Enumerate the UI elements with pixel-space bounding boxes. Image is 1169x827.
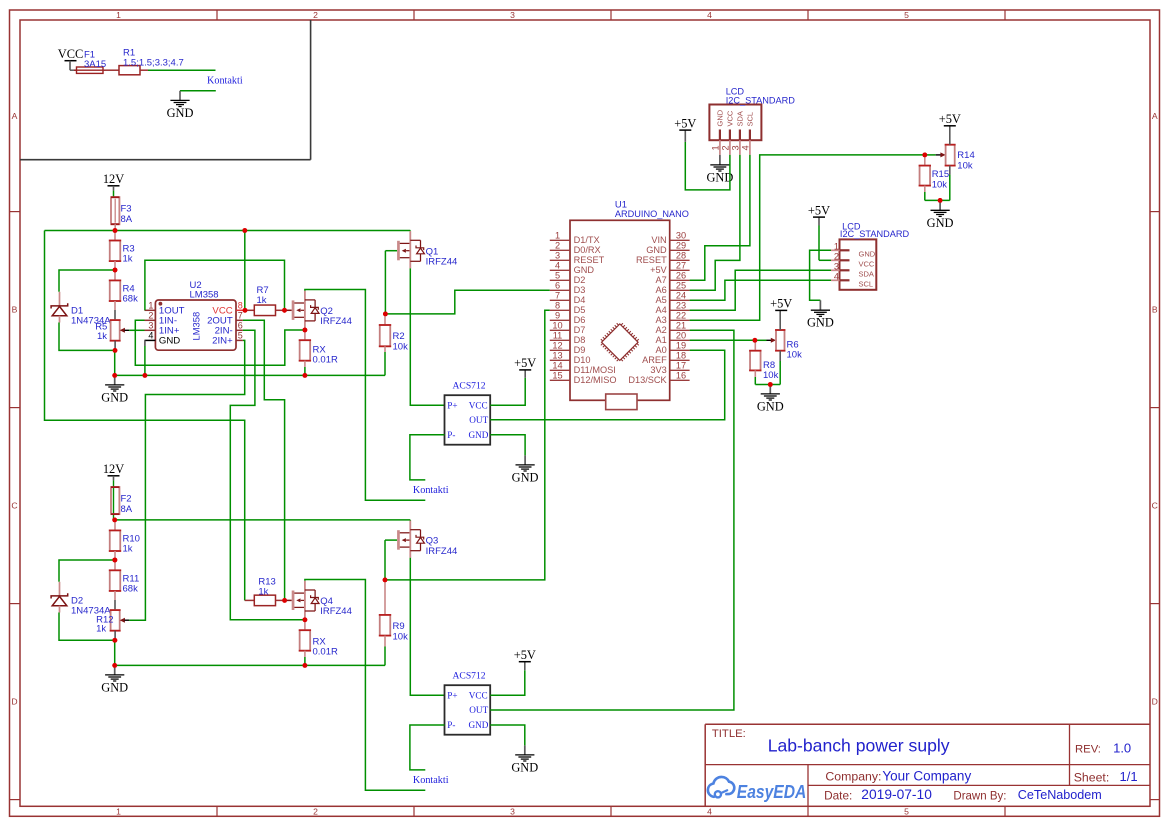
svg-text:+5V: +5V	[674, 116, 696, 130]
svg-text:8: 8	[555, 301, 560, 311]
svg-text:3: 3	[510, 806, 515, 816]
svg-text:D11/MOSI: D11/MOSI	[574, 365, 616, 375]
title block	[705, 724, 1150, 806]
svg-text:VCC: VCC	[58, 47, 83, 61]
svg-text:10k: 10k	[393, 632, 409, 643]
wire Q4 source to RX2	[304, 618, 306, 620]
svg-text:VCC: VCC	[469, 690, 488, 700]
svg-text:1/1: 1/1	[1120, 769, 1138, 784]
ground R8-R6	[757, 394, 784, 414]
svg-text:I2C_STANDARD: I2C_STANDARD	[840, 229, 910, 239]
resistor R3	[109, 231, 135, 265]
svg-text:12V: 12V	[103, 462, 124, 476]
node RX2 bottom on GND rail	[303, 663, 308, 668]
svg-text:ACS712: ACS712	[453, 380, 486, 391]
svg-text:10: 10	[552, 321, 562, 331]
fuse F3	[111, 197, 133, 225]
wire R1 to Kontakti	[140, 69, 216, 71]
svg-text:3: 3	[148, 321, 153, 331]
op-amp U2 LM358	[145, 280, 246, 350]
resistor R9	[379, 580, 408, 666]
svg-text:D: D	[11, 697, 17, 707]
svg-text:LM358: LM358	[190, 289, 219, 300]
svg-text:GND: GND	[468, 720, 488, 730]
wire Q3 gate node to D5	[385, 310, 550, 580]
resistor R10	[109, 520, 140, 555]
node Q4 source RX2 top junction	[303, 617, 308, 622]
svg-text:GND: GND	[159, 336, 180, 347]
svg-text:IRFZ44: IRFZ44	[320, 316, 352, 327]
wire 12V rail channel 1	[45, 230, 411, 232]
svg-text:19: 19	[676, 341, 686, 351]
svg-text:17: 17	[676, 361, 686, 371]
shunt resistor RX1	[299, 330, 338, 375]
wire A1 to R6 wiper	[690, 339, 755, 341]
svg-text:11: 11	[553, 331, 563, 341]
junction dots overlay	[112, 153, 942, 668]
svg-text:3: 3	[730, 145, 740, 150]
svg-text:F2: F2	[121, 494, 132, 505]
ground ACS2	[511, 755, 538, 775]
transistor Q2 IRFZ44	[292, 291, 352, 328]
svg-text:D2: D2	[574, 275, 586, 285]
svg-text:3: 3	[510, 10, 515, 20]
svg-text:2IN+: 2IN+	[212, 336, 233, 347]
svg-text:10k: 10k	[787, 350, 803, 361]
svg-text:8: 8	[238, 301, 243, 311]
wire junction down to GND rail channel 2	[114, 640, 116, 665]
svg-text:6: 6	[238, 321, 243, 331]
microcontroller U1 ARDUINO_NANO	[550, 200, 690, 401]
svg-text:REV:: REV:	[1075, 744, 1101, 756]
transistor Q3 drain from rail	[409, 519, 411, 522]
potentiometer R12	[96, 610, 129, 640]
node GND rail channel 2 left	[112, 663, 117, 668]
fuse F1	[74, 50, 106, 74]
svg-text:7: 7	[555, 291, 560, 301]
svg-text:10k: 10k	[393, 342, 409, 353]
power flag +5V ACS1	[514, 356, 536, 370]
wire U2 1OUT loop to Q2 gate node	[145, 260, 285, 310]
power flag 12V channel 1	[103, 172, 124, 186]
resistor R1	[119, 48, 184, 75]
svg-text:VIN: VIN	[651, 235, 666, 245]
svg-text:14: 14	[552, 361, 562, 371]
wire LCD1 pin1 to ground	[719, 155, 721, 165]
wire 12V to F3	[113, 186, 115, 197]
wire R13 to Q4 gate	[285, 599, 292, 601]
svg-text:1: 1	[834, 241, 839, 251]
wire Q4 drain to Kontakti	[305, 580, 425, 791]
wire rail branch down to R13 feed	[45, 231, 245, 601]
ground top-left	[167, 100, 194, 120]
connector LCD I2C_STANDARD right	[831, 222, 910, 290]
svg-text:23: 23	[676, 301, 686, 311]
net label Kontakti	[207, 76, 243, 87]
diode D1 pin top	[59, 292, 61, 306]
svg-text:29: 29	[676, 241, 686, 251]
potentiometer R14	[940, 126, 974, 201]
connector LCD I2C_STANDARD top	[709, 86, 795, 155]
ground LCD1	[706, 165, 733, 185]
svg-text:1k: 1k	[257, 295, 267, 306]
svg-text:2: 2	[834, 251, 839, 261]
wire F3 to rail	[114, 224, 116, 230]
node R15-R14 GND junction	[938, 198, 943, 203]
svg-text:RESET: RESET	[574, 255, 605, 265]
node Q1 gate R2 junction	[383, 312, 388, 317]
svg-text:IRFZ44: IRFZ44	[426, 257, 458, 268]
svg-text:21: 21	[676, 321, 686, 331]
potentiometer R5	[95, 320, 129, 350]
wire GND rail channel 1	[115, 374, 385, 376]
svg-text:GND: GND	[757, 399, 784, 413]
wire R8-R6 bottom to ground	[755, 384, 780, 386]
power flag 12V channel 2	[103, 462, 124, 476]
svg-text:VCC: VCC	[469, 400, 488, 410]
wire Q1 gate node	[385, 251, 397, 314]
svg-text:A4: A4	[655, 305, 666, 315]
EasyEDA logo	[708, 777, 806, 802]
node R12-D2 junction	[113, 638, 118, 643]
node rail to U2-VCC junction	[242, 228, 247, 233]
svg-text:26: 26	[676, 271, 686, 281]
svg-text:2019-07-10: 2019-07-10	[861, 787, 932, 802]
ground R14-R15	[927, 210, 954, 230]
svg-text:8A: 8A	[121, 504, 133, 515]
svg-text:5: 5	[555, 271, 560, 281]
svg-text:2: 2	[313, 10, 318, 20]
svg-text:A3: A3	[655, 315, 666, 325]
node R5-D1 junction	[113, 348, 118, 353]
svg-text:SCL: SCL	[859, 279, 874, 288]
svg-text:1: 1	[116, 806, 121, 816]
svg-text:1: 1	[555, 231, 560, 241]
svg-text:D13/SCK: D13/SCK	[628, 375, 667, 385]
svg-text:D3: D3	[574, 285, 586, 295]
wire 12V rail channel 2	[115, 519, 411, 521]
net label Kontakti channel 1 load	[413, 485, 449, 496]
svg-text:D8: D8	[574, 335, 586, 345]
svg-text:A7: A7	[655, 275, 666, 285]
power flag VCC	[58, 47, 83, 61]
svg-text:7: 7	[238, 311, 243, 321]
node F2 junction	[112, 518, 117, 523]
svg-text:GND: GND	[859, 249, 876, 258]
svg-text:P-: P-	[447, 430, 455, 440]
wire U2 pin4 GND down to rail	[144, 340, 146, 375]
svg-text:D0/RX: D0/RX	[574, 245, 601, 255]
wire R3 to R4	[114, 261, 116, 280]
svg-text:68k: 68k	[123, 293, 139, 304]
fuse F2	[111, 487, 133, 515]
svg-text:16: 16	[676, 371, 686, 381]
svg-text:D4: D4	[574, 295, 586, 305]
resistor R15	[919, 155, 949, 201]
svg-text:5: 5	[904, 806, 909, 816]
svg-text:ARDUINO_NANO: ARDUINO_NANO	[615, 209, 689, 219]
svg-text:20: 20	[676, 331, 686, 341]
transistor Q1 drain from rail	[409, 230, 411, 233]
svg-text:1: 1	[710, 145, 720, 150]
net label Kontakti channel 2 load	[413, 775, 449, 786]
svg-text:Sheet:: Sheet:	[1074, 770, 1110, 784]
wire R4 to R5	[114, 301, 116, 320]
ground channel 2	[101, 675, 128, 695]
svg-text:Kontakti: Kontakti	[207, 76, 243, 87]
svg-text:GND: GND	[511, 760, 538, 774]
svg-text:+5V: +5V	[514, 356, 536, 370]
wire Q3 gate node	[385, 540, 397, 580]
node U2 pin4 on GND rail	[143, 373, 148, 378]
svg-text:CeTeNabodem: CeTeNabodem	[1018, 788, 1102, 802]
potentiometer R6	[771, 310, 802, 384]
svg-text:4: 4	[707, 10, 712, 20]
svg-text:0.01R: 0.01R	[313, 355, 338, 366]
svg-text:9: 9	[555, 311, 560, 321]
node U2 pin8 VCC junction	[243, 308, 248, 313]
svg-text:GND: GND	[468, 430, 488, 440]
svg-text:VCC: VCC	[859, 259, 875, 268]
svg-text:1k: 1k	[123, 254, 133, 265]
svg-text:1k: 1k	[258, 587, 268, 598]
svg-text:30: 30	[676, 231, 686, 241]
svg-text:3: 3	[834, 261, 839, 271]
node RX1 bottom on GND rail	[303, 373, 308, 378]
svg-text:24: 24	[676, 291, 686, 301]
wire LCD1 pin2 to +5V	[685, 130, 730, 190]
svg-text:AREF: AREF	[642, 355, 667, 365]
svg-text:18: 18	[676, 351, 686, 361]
svg-text:GND: GND	[927, 216, 954, 230]
wire R11 to R12	[114, 591, 116, 610]
svg-text:Kontakti: Kontakti	[413, 485, 449, 496]
svg-text:5: 5	[238, 331, 243, 341]
wire R5 wiper to U2 1IN+	[129, 329, 144, 331]
wire Q2 drain to Kontakti	[305, 290, 425, 501]
chip icon inside U1	[598, 320, 642, 364]
wire GND stub R8	[769, 385, 771, 394]
svg-text:+5V: +5V	[650, 265, 667, 275]
svg-text:Drawn By:: Drawn By:	[953, 791, 1006, 803]
svg-text:2: 2	[555, 241, 560, 251]
wire Q3 source to ACS712-2 P+	[410, 558, 444, 695]
wire F1 to R1	[103, 69, 119, 71]
node F3 junction	[113, 228, 118, 233]
svg-text:ACS712: ACS712	[453, 670, 486, 681]
svg-text:D5: D5	[574, 305, 586, 315]
svg-text:12V: 12V	[103, 172, 124, 186]
svg-text:D12/MISO: D12/MISO	[574, 375, 617, 385]
svg-text:5: 5	[904, 10, 909, 20]
svg-text:GND: GND	[167, 106, 194, 120]
svg-text:4: 4	[740, 145, 750, 150]
svg-text:D7: D7	[574, 325, 586, 335]
resistor R2	[379, 314, 408, 376]
svg-text:27: 27	[676, 261, 686, 271]
svg-text:GND: GND	[101, 680, 128, 694]
power flag +5V ACS2	[514, 648, 536, 662]
wire junction to D2 top	[59, 560, 115, 582]
svg-text:1k: 1k	[123, 543, 133, 554]
svg-text:13: 13	[552, 351, 562, 361]
zener diode D1	[51, 303, 111, 326]
node R3-R4 junction	[113, 268, 118, 273]
ground channel 1	[101, 385, 128, 405]
svg-text:GND: GND	[101, 390, 128, 404]
svg-text:1k: 1k	[97, 331, 107, 342]
transistor Q3 IRFZ44	[397, 521, 457, 558]
power flag +5V LCD1	[674, 116, 696, 130]
svg-text:R2: R2	[393, 331, 405, 342]
svg-text:3: 3	[555, 251, 560, 261]
resistor R7	[245, 285, 285, 316]
svg-text:LM358: LM358	[191, 312, 202, 341]
ground ACS1	[512, 465, 539, 485]
wire GND stub channel 1	[114, 375, 116, 385]
wire GND stub channel 2	[114, 665, 116, 675]
svg-text:D1/TX: D1/TX	[574, 235, 600, 245]
svg-text:P-: P-	[447, 720, 455, 730]
svg-text:VCC: VCC	[726, 110, 735, 126]
partition box top-left	[20, 20, 311, 160]
resistor R11	[109, 570, 139, 594]
wire VCC to F1	[70, 61, 77, 70]
wire LCD2 pin4 SCL to A5	[690, 280, 831, 300]
svg-text:4: 4	[148, 331, 153, 341]
wire junction down to GND rail	[114, 350, 116, 375]
svg-text:F3: F3	[121, 204, 132, 215]
svg-text:4: 4	[555, 261, 560, 271]
svg-text:IRFZ44: IRFZ44	[426, 546, 458, 557]
svg-text:D9: D9	[574, 345, 586, 355]
svg-text:4: 4	[834, 271, 839, 281]
svg-text:2: 2	[720, 145, 730, 150]
wire R7 to Q2 gate	[285, 309, 292, 311]
svg-text:1: 1	[116, 10, 121, 20]
transistor Q4 IRFZ44	[292, 581, 352, 618]
svg-text:Kontakti: Kontakti	[413, 775, 449, 786]
wire ACS2 VCC to +5V	[490, 662, 525, 696]
wire U2 pin5 2IN+ to R12 wiper	[129, 340, 245, 620]
wire LCD2 pin3 SDA to A4	[690, 270, 831, 310]
wire 12V to F2	[113, 476, 115, 520]
svg-text:A5: A5	[655, 295, 666, 305]
svg-text:I2C_STANDARD: I2C_STANDARD	[726, 96, 796, 106]
svg-text:C: C	[11, 501, 17, 511]
svg-text:3V3: 3V3	[650, 365, 666, 375]
wire A3 to R14 wiper	[690, 155, 925, 320]
power flag +5V R6	[770, 297, 792, 311]
wire ACS2 GND to ground	[490, 725, 525, 755]
svg-text:Lab-banch power suply: Lab-banch power suply	[768, 736, 950, 756]
svg-text:SDA: SDA	[859, 269, 874, 278]
wire GND stub R14	[939, 200, 941, 210]
ground LCD2	[807, 310, 834, 330]
svg-text:1: 1	[148, 301, 153, 311]
power flag +5V LCD2	[808, 203, 830, 217]
node R7-Q2 gate junction	[282, 308, 287, 313]
svg-text:A: A	[12, 111, 18, 121]
svg-text:GND: GND	[574, 265, 595, 275]
svg-text:2: 2	[148, 311, 153, 321]
wire LCD1 pin4 SCL to A7	[690, 155, 750, 280]
wire ACS1 OUT to A0	[490, 350, 725, 420]
svg-text:RESET: RESET	[636, 255, 667, 265]
wire ACS1 GND to ground	[490, 435, 525, 465]
wire R15-R14 bottom to ground	[925, 199, 950, 201]
svg-text:6: 6	[555, 281, 560, 291]
node R13-Q4 gate junction	[282, 598, 287, 603]
transistor Q1 IRFZ44	[397, 231, 457, 268]
svg-text:GND: GND	[512, 470, 539, 484]
wire Q1 source to ACS712-1 P+	[410, 268, 444, 405]
svg-text:TITLE:: TITLE:	[712, 728, 746, 740]
wire Kontakti to GND	[180, 91, 216, 101]
svg-text:A2: A2	[655, 325, 666, 335]
svg-text:C: C	[1152, 501, 1158, 511]
resistor R4	[109, 280, 138, 304]
svg-text:+5V: +5V	[514, 648, 536, 662]
svg-text:B: B	[12, 305, 18, 315]
node R10-R11 junction	[113, 558, 118, 563]
zener diode D2	[51, 593, 111, 616]
node Q2 source RX1 top junction	[303, 328, 308, 333]
wire D1 to R5 bottom junction	[59, 323, 115, 351]
node A3-R15 junction	[922, 153, 927, 158]
svg-text:D: D	[1152, 697, 1158, 707]
wire LCD2 pin1 to ground	[810, 250, 831, 310]
svg-text:D6: D6	[574, 315, 586, 325]
svg-text:12: 12	[552, 341, 562, 351]
svg-text:GND: GND	[716, 109, 725, 126]
wire Q2 source to RX1	[304, 328, 306, 330]
usb connector of U1	[606, 394, 637, 410]
svg-text:0.01R: 0.01R	[313, 647, 338, 658]
wire ACS1 P- to Kontakti	[410, 435, 445, 480]
wire U2 pin7 2OUT to Q4 gate node	[243, 320, 285, 600]
svg-text:GND: GND	[646, 245, 667, 255]
wire LCD1 pin3 SDA to A6	[690, 155, 740, 290]
svg-text:GND: GND	[807, 316, 834, 330]
wire ACS2 OUT to A2	[490, 330, 734, 710]
current sensor ACS712 channel 2	[445, 670, 491, 734]
wire junction to D1 top	[59, 270, 115, 292]
wire junction to R6 arrow	[755, 339, 771, 341]
svg-text:4: 4	[707, 806, 712, 816]
svg-text:1.0: 1.0	[1113, 741, 1131, 756]
wire GND rail channel 2	[115, 664, 385, 666]
svg-text:10k: 10k	[957, 160, 973, 171]
current sensor ACS712 channel 1	[445, 380, 491, 444]
svg-text:EasyEDA: EasyEDA	[737, 781, 807, 802]
svg-text:Your Company: Your Company	[882, 768, 971, 783]
svg-text:28: 28	[676, 251, 686, 261]
svg-text:SCL: SCL	[746, 112, 755, 127]
svg-text:22: 22	[676, 311, 686, 321]
svg-text:OUT: OUT	[469, 415, 488, 425]
diode D1 pin bottom	[59, 316, 61, 323]
svg-text:8A: 8A	[121, 214, 133, 225]
svg-text:10k: 10k	[932, 179, 948, 190]
svg-text:IRFZ44: IRFZ44	[320, 606, 352, 617]
svg-text:B: B	[1152, 305, 1158, 315]
node R8-R6 GND junction	[768, 382, 773, 387]
node GND rail left	[112, 373, 117, 378]
wire R10 to R11	[114, 551, 116, 570]
wire U2 pin6 2IN- to RX2 top	[230, 330, 305, 620]
svg-text:3A15: 3A15	[84, 59, 106, 70]
